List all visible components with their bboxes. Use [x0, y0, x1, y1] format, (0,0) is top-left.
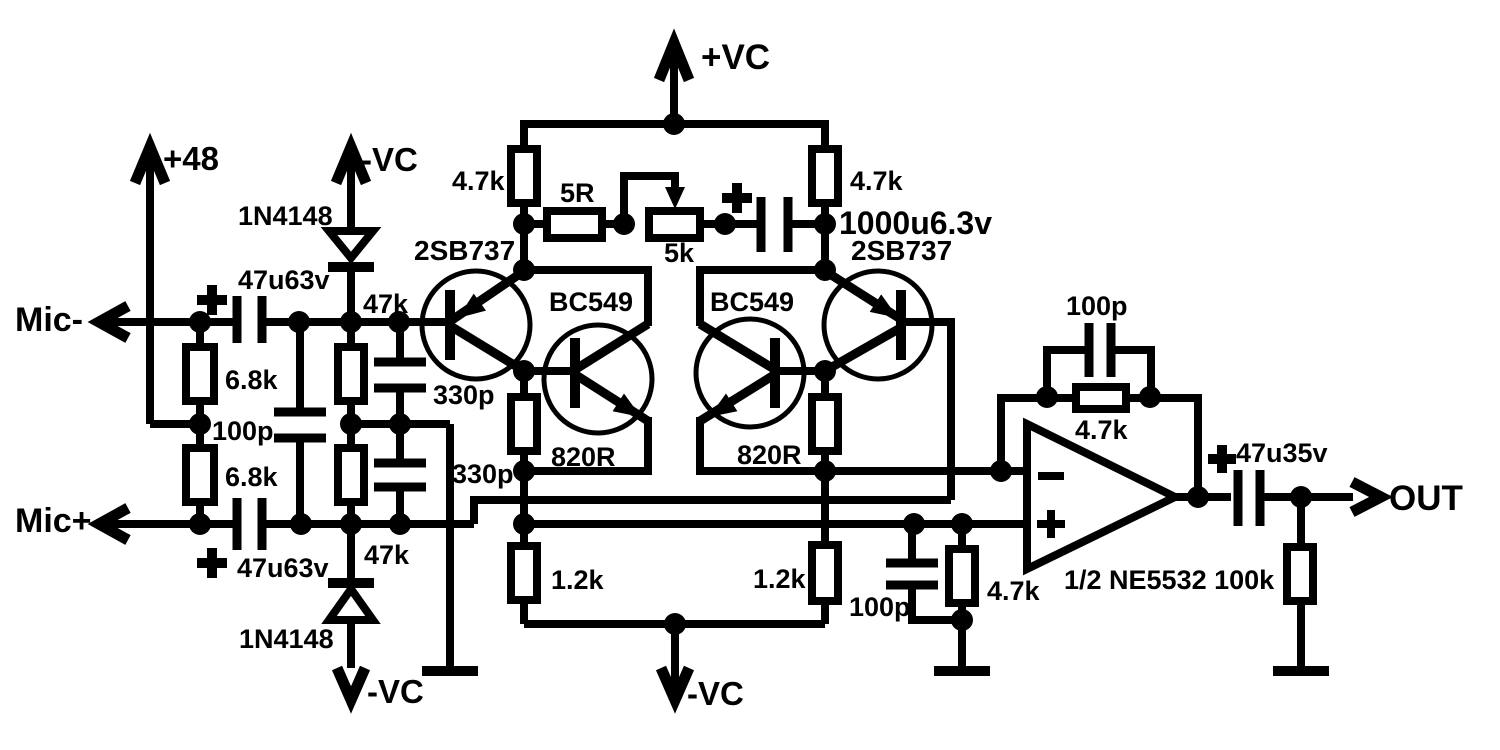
- svg-text:1N4148: 1N4148: [239, 624, 334, 654]
- svg-text:47u63v: 47u63v: [238, 265, 330, 295]
- svg-text:-VC: -VC: [367, 673, 424, 710]
- svg-text:Mic-: Mic-: [15, 301, 83, 339]
- capacitor C1 1000u6.3v: [722, 183, 992, 252]
- svg-text:47u35v: 47u35v: [1236, 438, 1328, 468]
- node OUT arrow: [1352, 479, 1463, 518]
- node Mic+ input arrow: [15, 502, 128, 540]
- svg-text:47u63v: 47u63v: [237, 553, 329, 583]
- svg-text:1.2k: 1.2k: [551, 565, 605, 595]
- capacitor C4 330p upper: [374, 322, 495, 424]
- wire output line: [1264, 493, 1353, 501]
- svg-text:1N4148: 1N4148: [238, 201, 333, 231]
- svg-text:820R: 820R: [737, 440, 802, 470]
- wire inverting input line: [825, 467, 1027, 475]
- resistor R10 1.2k left: [511, 471, 605, 624]
- potentiometer VR1 5k: [624, 176, 725, 268]
- node -VC supply arrow top: [336, 141, 418, 231]
- node Mic- input arrow: [15, 301, 128, 339]
- svg-text:2SB737: 2SB737: [851, 235, 952, 266]
- svg-text:100p: 100p: [849, 592, 911, 622]
- node Q1 collector junction: [513, 360, 535, 382]
- wire Q4 base to W1: [906, 322, 951, 500]
- wire W2 noninverting line: [524, 520, 1027, 528]
- svg-text:100p: 100p: [212, 416, 274, 446]
- svg-text:4.7k: 4.7k: [987, 576, 1041, 606]
- wire Mic+ line: [98, 520, 233, 528]
- resistor R3 5R: [524, 178, 624, 238]
- transistor Q4 2SB737 right: [824, 235, 952, 379]
- svg-text:4.7k: 4.7k: [1075, 415, 1129, 445]
- wire Mic- line: [98, 318, 233, 326]
- wire BC549 right emitter loop: [700, 417, 825, 471]
- capacitor C8 100p feedback: [1047, 291, 1151, 397]
- wire BC549 left emitter loop: [524, 417, 648, 471]
- wire junction row down to ground: [446, 424, 454, 668]
- svg-text:BC549: BC549: [710, 287, 794, 317]
- resistor R5 6.8k lower: [186, 424, 279, 524]
- svg-text:OUT: OUT: [1389, 479, 1463, 518]
- transistor Q2 BC549 left: [524, 287, 652, 433]
- capacitor C2 47u63v top: [197, 265, 330, 343]
- resistor R6 47k upper: [338, 289, 409, 424]
- resistor R13 4.7k feedback: [1001, 387, 1198, 497]
- capacitor C7 100p middle: [849, 524, 962, 622]
- svg-text:1/2 NE5532 100k: 1/2 NE5532 100k: [1064, 565, 1275, 595]
- node +48 supply arrow: [135, 140, 219, 424]
- node junction +VC rail: [663, 113, 685, 135]
- node -VC supply arrow bottom middle: [661, 624, 744, 712]
- resistor R12 4.7k middle: [949, 524, 1041, 668]
- ground bar left: [422, 666, 478, 676]
- node Q4 collector junction: [814, 360, 836, 382]
- ground bar right: [1273, 666, 1329, 676]
- resistor R14 100k: [1287, 497, 1313, 668]
- svg-text:Mic+: Mic+: [15, 502, 92, 540]
- svg-text:330p: 330p: [452, 459, 514, 489]
- svg-text:100p: 100p: [1066, 291, 1128, 321]
- node -VC supply arrow bottom left: [337, 668, 424, 710]
- resistor R11 1.2k right: [753, 471, 838, 624]
- diode D1 1N4148 top: [238, 201, 374, 322]
- wire op-amp output: [1175, 493, 1231, 501]
- svg-text:BC549: BC549: [549, 287, 633, 317]
- wire 47k-330p junction row: [351, 420, 450, 428]
- wire Mic- line to base: [266, 318, 445, 326]
- svg-text:47k: 47k: [363, 289, 409, 319]
- svg-text:6.8k: 6.8k: [225, 365, 279, 395]
- node junctions on bias row: [513, 213, 535, 235]
- capacitor C6 47u63v bottom: [197, 498, 329, 583]
- node +VC supply arrow: [659, 38, 770, 124]
- svg-text:+48: +48: [163, 140, 219, 177]
- capacitor C3 100p left: [212, 322, 326, 524]
- svg-text:1.2k: 1.2k: [753, 564, 807, 594]
- resistor R2 4.7k right: [812, 149, 904, 224]
- wire top rail: [524, 124, 825, 149]
- svg-text:4.7k: 4.7k: [850, 166, 904, 196]
- svg-text:330p: 330p: [433, 380, 495, 410]
- svg-text:6.8k: 6.8k: [225, 462, 279, 492]
- svg-text:5k: 5k: [664, 238, 695, 268]
- diode D2 1N4148 bottom: [239, 524, 374, 668]
- resistor R8 820R left: [511, 371, 616, 472]
- svg-text:-VC: -VC: [687, 675, 744, 712]
- resistor R4 6.8k upper: [186, 322, 279, 424]
- svg-text:2SB737: 2SB737: [414, 235, 515, 266]
- transistor Q1 2SB737 left: [414, 235, 530, 379]
- wire emitter columns: [520, 224, 528, 270]
- capacitor C5 330p lower: [374, 424, 514, 524]
- wire Mic+ line to step: [266, 520, 474, 528]
- svg-text:5R: 5R: [560, 178, 595, 208]
- svg-text:-VC: -VC: [361, 141, 418, 178]
- svg-text:47k: 47k: [364, 540, 410, 570]
- resistor R9 820R right: [737, 371, 838, 471]
- wire right emitter to BC549 collector: [700, 270, 825, 326]
- transistor Q3 BC549 right: [696, 287, 825, 427]
- op-amp U1 1/2 NE5532: [1027, 424, 1275, 595]
- capacitor C9 47u35v: [1208, 438, 1328, 526]
- resistor R7 47k lower: [338, 424, 410, 570]
- resistor R1 4.7k left: [452, 149, 537, 224]
- wire left emitter to BC549 collector: [524, 270, 648, 326]
- wire bottom rail: [524, 620, 825, 628]
- svg-text:4.7k: 4.7k: [452, 166, 506, 196]
- svg-text:+VC: +VC: [701, 38, 770, 77]
- ground bar middle: [934, 666, 990, 676]
- wire W1 Mic+ to Q4 base: [474, 500, 951, 524]
